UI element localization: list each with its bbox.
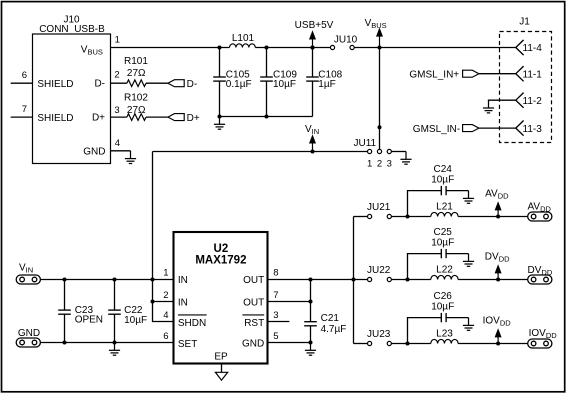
inductor L21 xyxy=(431,212,458,216)
wire trunk vertical xyxy=(353,217,355,344)
svg-text:D+: D+ xyxy=(92,113,105,124)
svg-text:7: 7 xyxy=(273,290,278,301)
svg-text:11-4: 11-4 xyxy=(523,43,543,54)
connector pad DVDD xyxy=(528,275,552,284)
wire C22 lower lead xyxy=(114,315,116,343)
wire branch to pin2 xyxy=(153,301,174,303)
svg-text:27Ω: 27Ω xyxy=(127,68,146,79)
svg-text:JU11: JU11 xyxy=(354,138,377,149)
power arrow VBUS xyxy=(376,27,383,47)
svg-text:1µF: 1µF xyxy=(318,79,335,90)
wire 11-2 to ground xyxy=(489,99,516,102)
svg-text:GMSL_IN+: GMSL_IN+ xyxy=(409,70,459,81)
svg-text:RST: RST xyxy=(244,318,264,329)
svg-text:8: 8 xyxy=(273,268,278,279)
svg-text:GND: GND xyxy=(242,339,264,350)
svg-text:SET: SET xyxy=(178,339,197,350)
J1 pin 11-3 mark xyxy=(516,121,524,136)
ground below C105 xyxy=(214,117,225,130)
svg-text:3: 3 xyxy=(387,158,392,169)
capacitor C24 xyxy=(441,186,446,195)
wire C23 upper lead xyxy=(64,280,66,311)
power arrow IOVDD xyxy=(495,328,502,343)
junction VIN-vertical xyxy=(151,278,155,282)
power arrow VIN xyxy=(309,134,316,151)
wire RST stub xyxy=(268,321,290,323)
wire C105 upper lead xyxy=(219,48,221,78)
svg-text:SHIELD: SHIELD xyxy=(37,113,73,124)
svg-text:J1: J1 xyxy=(519,17,530,28)
junction trunk OUT xyxy=(352,278,356,282)
connector tag GMSL_IN- xyxy=(463,125,479,132)
ground below C21 xyxy=(305,343,316,356)
wire C23 lower lead xyxy=(64,315,66,343)
IC U2 box xyxy=(174,232,268,364)
svg-text:11-1: 11-1 xyxy=(523,70,543,81)
wire C26 to ground xyxy=(446,317,469,319)
svg-text:6: 6 xyxy=(163,331,168,342)
svg-text:SHIELD: SHIELD xyxy=(37,79,73,90)
wire trunk to JU21 xyxy=(354,216,368,218)
capacitor C21 xyxy=(304,322,317,326)
capacitor C105 xyxy=(213,77,226,81)
connector tag GMSL_IN+ xyxy=(463,70,479,77)
wire VBUS down to JU11 xyxy=(379,49,381,149)
svg-text:MAX1792: MAX1792 xyxy=(195,255,246,267)
connector pad IOVDD xyxy=(528,339,552,348)
connector pad VIN xyxy=(16,275,40,284)
junction VIN-C23 xyxy=(63,278,67,282)
junction VBUS-C105 xyxy=(218,46,222,50)
power arrow USB+5V xyxy=(309,30,316,47)
svg-text:L21: L21 xyxy=(436,201,453,212)
svg-text:2: 2 xyxy=(163,290,168,301)
junction IOVDD arrow xyxy=(496,342,500,346)
inductor L22 xyxy=(431,275,458,279)
wire U2 EP stem xyxy=(221,364,223,373)
svg-text:27Ω: 27Ω xyxy=(127,105,146,116)
svg-text:4.7µF: 4.7µF xyxy=(321,324,347,335)
capacitor C22 xyxy=(108,310,121,314)
wire JU22 to L22 xyxy=(391,279,430,281)
junction C21 pin7 xyxy=(309,300,313,304)
junction on VBUS vertical xyxy=(378,125,382,129)
junction C25 branch xyxy=(406,278,410,282)
svg-text:2: 2 xyxy=(114,69,119,80)
svg-text:R102: R102 xyxy=(124,93,148,104)
junction VIN arrow xyxy=(311,150,315,154)
connector tag D+ xyxy=(168,114,184,121)
capacitor C23 xyxy=(58,310,71,314)
U2 RST overline xyxy=(242,314,264,316)
resistor R101 xyxy=(127,80,146,87)
wire L23 to pad xyxy=(458,343,528,345)
svg-text:JU22: JU22 xyxy=(367,265,391,276)
junction VIN-C22 xyxy=(113,278,117,282)
connector pad AVDD xyxy=(528,212,552,221)
svg-text:11-2: 11-2 xyxy=(523,96,543,107)
svg-text:OUT: OUT xyxy=(243,275,264,286)
wire J10 pin7 stub xyxy=(11,116,33,118)
wire L22 to pad xyxy=(458,279,528,281)
junction VBUS vertical xyxy=(378,46,382,50)
power arrow AVDD xyxy=(495,201,502,216)
JU22 pin 2 circle xyxy=(387,277,391,281)
svg-text:L22: L22 xyxy=(436,264,453,275)
wire C105 lower lead xyxy=(219,81,221,116)
junction VBUS-C109 xyxy=(265,46,269,50)
svg-text:GMSL_IN-: GMSL_IN- xyxy=(413,124,460,135)
connector J1 dashed box xyxy=(500,32,552,143)
junction C21 top xyxy=(309,278,313,282)
wire OUT7 to C21 xyxy=(268,301,311,303)
JU10 pin 2 circle xyxy=(350,45,354,49)
ground at C24 xyxy=(463,191,474,204)
wire trunk to JU23 xyxy=(354,343,368,345)
wire C109 lower lead xyxy=(266,81,268,116)
svg-text:1: 1 xyxy=(367,158,372,169)
J1 pin 11-2 mark xyxy=(516,93,524,108)
wire C22 upper lead xyxy=(114,280,116,311)
wire GND rail xyxy=(40,342,173,344)
svg-text:0.1µF: 0.1µF xyxy=(226,79,252,90)
inductor L23 xyxy=(431,339,458,343)
junction DVDD arrow xyxy=(496,278,500,282)
J1 pin 11-4 mark xyxy=(516,40,524,55)
wire J10 pin6 stub xyxy=(11,82,33,84)
svg-text:2: 2 xyxy=(377,158,382,169)
svg-text:OUT: OUT xyxy=(243,298,264,309)
junction USB+5V arrow xyxy=(311,46,315,50)
wire J10 pin2 to R101 xyxy=(111,82,127,84)
junction GND-C23 xyxy=(63,341,67,345)
svg-text:L101: L101 xyxy=(232,33,255,44)
svg-text:C21: C21 xyxy=(321,313,340,324)
power arrow DVDD xyxy=(495,264,502,279)
wire VBUS rail L101 to JU10 xyxy=(255,47,330,49)
svg-text:OPEN: OPEN xyxy=(75,315,103,326)
J1 pin 11-1 mark xyxy=(516,66,524,81)
U2 EP triangle xyxy=(215,372,227,380)
connector pad GND xyxy=(16,338,40,347)
svg-text:10µF: 10µF xyxy=(431,175,454,186)
ground at JU11 xyxy=(400,152,411,165)
connector tag D- xyxy=(168,80,184,87)
JU21 pin 1 circle xyxy=(368,214,372,218)
wire C26 branch xyxy=(408,318,442,344)
connector J10 box xyxy=(33,34,111,164)
svg-text:10µF: 10µF xyxy=(273,79,296,90)
svg-text:CONN_USB-B: CONN_USB-B xyxy=(39,24,105,35)
wire branch to SHDN xyxy=(153,280,174,322)
svg-text:3: 3 xyxy=(273,310,278,321)
svg-text:GND: GND xyxy=(83,147,105,158)
svg-text:IN: IN xyxy=(178,275,188,286)
wire JU23 to L23 xyxy=(391,343,430,345)
capacitor C108 xyxy=(306,77,319,81)
svg-text:SHDN: SHDN xyxy=(178,318,206,329)
svg-text:GND: GND xyxy=(18,328,40,339)
wire C108 lower lead xyxy=(312,81,314,116)
svg-text:JU23: JU23 xyxy=(367,329,391,340)
wire C21 lower lead xyxy=(310,326,312,342)
wire JU10 to J1 pin 11-4 xyxy=(354,47,516,49)
wire VIN rail xyxy=(40,279,173,281)
svg-text:U2: U2 xyxy=(214,243,229,255)
wire VBUS rail pin1 to L101 xyxy=(111,47,230,49)
wire C25 to ground xyxy=(446,253,469,255)
junction bottom rail C105 xyxy=(218,115,222,119)
junction C21 bottom xyxy=(309,341,313,345)
wire JU11 pin3 to ground xyxy=(391,151,406,153)
JU23 pin 2 circle xyxy=(387,341,391,345)
resistor R102 xyxy=(127,114,146,121)
svg-text:7: 7 xyxy=(22,104,27,115)
svg-text:1: 1 xyxy=(115,35,120,46)
junction C26 branch xyxy=(406,342,410,346)
junction bottom rail C109 xyxy=(265,115,269,119)
wire R101 to D- tag xyxy=(146,82,168,84)
wire OUT8 to JU22 xyxy=(268,279,368,281)
capacitor C109 xyxy=(260,77,273,81)
wire C108 upper lead xyxy=(312,48,314,78)
svg-text:JU21: JU21 xyxy=(367,202,391,213)
svg-text:EP: EP xyxy=(214,352,228,363)
svg-text:10µF: 10µF xyxy=(124,315,147,326)
inductor L101 xyxy=(230,44,256,48)
capacitor C25 xyxy=(441,249,446,258)
svg-text:4: 4 xyxy=(115,138,120,149)
svg-text:1: 1 xyxy=(163,268,168,279)
ground at J10 pin4 xyxy=(125,151,136,164)
svg-text:D-: D- xyxy=(94,79,105,90)
svg-text:IN: IN xyxy=(178,298,188,309)
wire VIN horizontal xyxy=(153,151,368,153)
junction C24 branch xyxy=(406,215,410,219)
JU11 pin 1 circle xyxy=(368,149,372,153)
wire C24 branch xyxy=(408,191,442,217)
JU23 pin 1 circle xyxy=(368,341,372,345)
JU21 pin 2 circle xyxy=(387,214,391,218)
wire C25 branch xyxy=(408,254,442,280)
svg-text:USB+5V: USB+5V xyxy=(295,20,334,31)
wire R102 to D+ tag xyxy=(146,116,168,118)
ground at J1 pin 11-2 xyxy=(483,100,494,113)
svg-text:5: 5 xyxy=(273,331,278,342)
junction AVDD arrow xyxy=(496,215,500,219)
wire J10 pin4 to ground xyxy=(111,150,131,152)
svg-text:D+: D+ xyxy=(187,113,200,124)
junction VBUS-C108 xyxy=(311,46,315,50)
wire JU21 to L21 xyxy=(391,216,430,218)
junction GND-C22 xyxy=(113,341,117,345)
svg-text:D-: D- xyxy=(187,79,198,90)
wire L21 to pad xyxy=(458,216,528,218)
svg-text:JU10: JU10 xyxy=(334,34,358,45)
svg-text:10µF: 10µF xyxy=(431,302,454,313)
svg-text:11-3: 11-3 xyxy=(523,124,543,135)
svg-text:6: 6 xyxy=(22,70,27,81)
ground at C26 xyxy=(463,318,474,331)
wire GMSL_IN+ to 11-1 xyxy=(479,73,516,75)
wire GMSL_IN- to 11-3 xyxy=(479,127,516,129)
ground at C25 xyxy=(463,254,474,267)
wire J10 pin3 to R102 xyxy=(111,116,127,118)
svg-text:10µF: 10µF xyxy=(431,238,454,249)
wire VIN vertical drop xyxy=(152,152,154,280)
wire C109 upper lead xyxy=(266,48,268,78)
svg-text:R101: R101 xyxy=(124,56,148,67)
JU11 pin 2 circle xyxy=(377,149,381,153)
JU11 pin 3 circle xyxy=(387,149,391,153)
junction pin2 branch xyxy=(151,300,155,304)
wire C24 to ground xyxy=(446,190,469,192)
U2 SHDN overline xyxy=(178,314,207,316)
svg-text:L23: L23 xyxy=(436,328,453,339)
wire cap bottom rail xyxy=(220,116,313,118)
svg-text:3: 3 xyxy=(114,105,119,116)
JU22 pin 1 circle xyxy=(368,277,372,281)
wire C21 upper lead xyxy=(310,280,312,322)
svg-text:4: 4 xyxy=(163,310,168,321)
JU10 pin 1 circle xyxy=(330,45,334,49)
ground below C22 xyxy=(109,343,120,356)
capacitor C26 xyxy=(441,313,446,322)
wire GND5 to C21 xyxy=(268,342,311,344)
